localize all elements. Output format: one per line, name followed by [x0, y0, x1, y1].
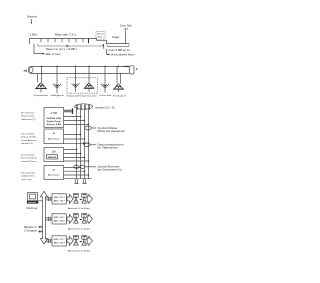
wire right-brace	[107, 45, 129, 47]
node S6 label	[113, 94, 127, 97]
wire row2 arrow end	[87, 214, 92, 223]
wire tick t4	[61, 39, 63, 43]
transistor Q3 sensor	[73, 213, 78, 223]
svg-text:im Taktzyklus: im Taktzyklus	[98, 147, 119, 150]
node annot3 text	[98, 165, 122, 171]
transistor Q5 sensor	[73, 235, 78, 245]
op-amp U2 module	[44, 129, 64, 144]
op-amp U1 module	[44, 108, 64, 128]
wire tick t6	[75, 39, 77, 43]
transistor Q6 sensor	[82, 235, 87, 245]
svg-text:10n: 10n	[52, 150, 57, 153]
node right-callout label	[111, 53, 136, 56]
node sensor-group box	[67, 78, 98, 93]
wire U4 pin2	[64, 171, 86, 172]
wire group link	[38, 226, 43, 233]
svg-text:Abstand 10 m Kabel: Abstand 10 m Kabel	[68, 250, 91, 253]
node bus name	[96, 105, 115, 109]
svg-text:Ein einzelner: Ein einzelner	[21, 112, 35, 115]
sensor S4 transducer	[84, 83, 94, 92]
svg-text:Helligkeit: Helligkeit	[51, 94, 65, 97]
wire busline L4	[88, 105, 90, 179]
node note1 left	[21, 112, 36, 121]
wire PC link	[38, 200, 42, 202]
op-amp U3 module	[44, 148, 64, 162]
node gap-label	[112, 35, 120, 39]
wire M2 arrow out	[67, 214, 73, 223]
svg-text:Digital-Temp.: Digital-Temp.	[47, 120, 62, 123]
svg-text:Zeitpunkt: Zeitpunkt	[27, 14, 37, 18]
svg-text:antwortet,: antwortet,	[21, 175, 35, 178]
svg-text:MF-PC: MF-PC	[54, 197, 66, 199]
svg-text:MF-PC: MF-PC	[54, 239, 66, 241]
node annot2 text	[98, 143, 125, 149]
svg-text:Rechner: Rechner	[27, 207, 38, 210]
node module M3	[52, 236, 66, 246]
wire sensor gap arrows r2	[79, 219, 82, 221]
svg-text:2 Gruppen: 2 Gruppen	[24, 229, 38, 232]
svg-text:Abstand 10 m Kabel: Abstand 10 m Kabel	[68, 207, 91, 210]
svg-text:Hausbus CC1 - 02: Hausbus CC1 - 02	[96, 105, 115, 109]
node bus lasso	[75, 104, 93, 110]
svg-text:Der naechste: Der naechste	[21, 154, 35, 157]
wire busline L2	[80, 105, 82, 179]
wire left-brace tick	[33, 44, 35, 46]
sensor S1 transducer	[35, 83, 47, 93]
node rate-label	[55, 33, 77, 36]
sensor S2 funnel	[53, 84, 61, 93]
node left-callout label	[46, 53, 62, 56]
node module M1	[52, 194, 66, 204]
svg-text:Tentakel: Tentakel	[113, 94, 127, 97]
wire busline L1	[76, 105, 78, 179]
node note2 left	[21, 133, 37, 145]
wire start-arrow	[31, 19, 33, 24]
wire U1 pin2	[64, 116, 82, 117]
transistor Q2 sensor	[82, 193, 87, 203]
node module M2	[52, 214, 66, 224]
wire U2 pin1	[64, 134, 82, 135]
wire bus tube	[28, 66, 130, 73]
svg-text:usw. (n): usw. (n)	[21, 179, 32, 181]
svg-text:Feuchte: Feuchte	[100, 94, 113, 97]
svg-text:Sensor sendet: Sensor sendet	[21, 136, 36, 139]
svg-text:36 sec aktuelle Werte: 36 sec aktuelle Werte	[111, 53, 136, 56]
wire sensor gap arrows r1	[79, 199, 82, 201]
wire waveform W1	[30, 39, 130, 45]
wire bottom rail	[64, 178, 92, 180]
wire row1 arrow end	[87, 194, 92, 203]
svg-text:(Ruhe) wird angewendet: (Ruhe) wird angewendet	[98, 130, 125, 133]
svg-text:a): a)	[124, 28, 128, 31]
wire branch B3	[45, 239, 52, 243]
wire end-marker	[125, 30, 127, 44]
wire left-callout arrow	[34, 46, 45, 55]
wire U3 pin3	[64, 157, 86, 158]
node annot2 marker	[84, 143, 96, 147]
wire tick t8 bold	[88, 39, 90, 44]
svg-text:adressiert (1): adressiert (1)	[21, 118, 36, 121]
svg-text:4 sec 2 MB sp ter: 4 sec 2 MB sp ter	[108, 49, 130, 52]
svg-text:ressiert (2 bis n): ressiert (2 bis n)	[21, 160, 37, 163]
node row2 label	[68, 228, 91, 231]
svg-text:Dauer ca. 0,2 s + 8 MB s: Dauer ca. 0,2 s + 8 MB s	[46, 48, 78, 51]
sensor S2 wire	[56, 66, 58, 84]
svg-text:AD 90: AD 90	[54, 241, 66, 244]
wire U3 pin4	[64, 160, 90, 161]
wire U4 pin3	[64, 174, 90, 175]
wire U1 pin3	[64, 120, 86, 121]
wire U2 pin3	[64, 142, 90, 144]
node group label	[67, 94, 98, 97]
svg-text:Abstand 10 m Kabel: Abstand 10 m Kabel	[68, 228, 91, 231]
wire tick t2	[47, 39, 49, 43]
node S5 label	[100, 94, 113, 97]
wire U1 pin1	[64, 108, 74, 114]
node group note	[24, 227, 38, 232]
svg-text:Sensor wird: Sensor wird	[21, 115, 35, 118]
svg-text:Sensor 9 Bit: Sensor 9 Bit	[47, 123, 62, 126]
wire row3 arrow end	[87, 236, 92, 245]
node left-brace label	[46, 48, 78, 51]
svg-text:AD 90: AD 90	[54, 219, 66, 222]
wire sensor gap arrows r3	[79, 241, 82, 243]
svg-text:Module in: Module in	[24, 227, 37, 229]
svg-text:Der einzelne: Der einzelne	[21, 133, 35, 136]
wire branch B2	[45, 217, 52, 221]
node note4 left	[21, 172, 36, 181]
svg-text:Rate alle 7,5 s: Rate alle 7,5 s	[55, 33, 77, 36]
node annot1 marker	[85, 126, 96, 130]
sensor S6 transducer	[113, 84, 124, 92]
sensor S3 funnel	[72, 83, 80, 92]
svg-text:a): a)	[24, 68, 28, 72]
wire line-end ticks	[75, 179, 87, 183]
sensor S6 wires	[117, 66, 121, 84]
svg-text:Hartgrund/Temperaturzone: Hartgrund/Temperaturzone	[67, 94, 98, 97]
svg-text:seine Antwort: seine Antwort	[21, 139, 37, 142]
node row1 label	[68, 207, 91, 210]
node computer PC	[27, 193, 39, 204]
wire right-callout arrow	[107, 49, 110, 56]
wire U1 pin4	[64, 124, 90, 125]
sensor S5 funnel	[101, 84, 109, 93]
node note3 left	[21, 154, 37, 163]
svg-text:Sensor wird ad-: Sensor wird ad-	[21, 157, 37, 160]
node annot3 markers	[74, 165, 96, 168]
wire tick t3	[54, 39, 56, 43]
svg-text:Symbol Muster: Symbol Muster	[98, 127, 118, 130]
wire tick t5	[68, 39, 70, 43]
sensor S5 wire	[104, 66, 106, 84]
wire U3 pin2	[64, 153, 82, 154]
wire gap-arrow	[103, 44, 105, 49]
svg-text:500 s: 500 s	[97, 37, 103, 39]
wire left-brace	[38, 44, 104, 47]
wire U3 pin1	[64, 149, 78, 150]
svg-text:AD 90: AD 90	[54, 199, 66, 202]
node row3 label	[68, 250, 91, 253]
svg-text:Daten austauschen: Daten austauschen	[98, 143, 125, 146]
svg-text:Der naechste: Der naechste	[21, 172, 36, 175]
svg-text:1790: 1790	[51, 112, 58, 115]
node S2 label	[51, 94, 65, 97]
node tube right cap	[130, 66, 138, 74]
svg-text:BW25: BW25	[48, 157, 58, 159]
op-amp U4 module	[44, 166, 64, 180]
svg-text:Symbol Elemente: Symbol Elemente	[98, 165, 121, 168]
node S1 label	[34, 94, 48, 97]
svg-text:als Gesamtabruf (n): als Gesamtabruf (n)	[98, 169, 122, 172]
wire M1 arrow out	[67, 194, 73, 203]
sensor S3 wire	[75, 66, 77, 84]
node bit-label	[29, 33, 37, 36]
svg-text:Antwort: Antwort	[48, 137, 60, 140]
sensor S4 wire	[88, 66, 90, 83]
svg-text:Antwort: Antwort	[48, 174, 60, 177]
wire tick t1	[40, 39, 42, 43]
svg-text:alle 2 sec: alle 2 sec	[46, 53, 62, 56]
svg-text:Gap: Gap	[112, 35, 120, 39]
node a-label	[24, 68, 28, 72]
node end-label	[120, 24, 132, 31]
node annot1 text	[98, 127, 125, 133]
wire tick t7	[82, 39, 84, 43]
node PC label	[27, 207, 38, 210]
svg-text:DS1820 (1W): DS1820 (1W)	[47, 118, 62, 120]
wire busline L3	[84, 105, 86, 179]
svg-text:1 Bit: 1 Bit	[29, 33, 37, 36]
wire U4 pin1	[64, 167, 82, 168]
transistor Q1 sensor	[73, 193, 78, 203]
node reset-callout box	[96, 32, 105, 40]
svg-text:MF-PC: MF-PC	[54, 217, 66, 219]
wire branch B1	[45, 197, 52, 201]
transistor Q4 sensor	[82, 213, 87, 223]
svg-text:Reset: Reset	[97, 33, 104, 36]
wire U2 pin2	[64, 138, 86, 139]
svg-text:Temperatur: Temperatur	[34, 94, 48, 97]
wire M3 arrow out	[67, 236, 73, 245]
svg-text:zurueck (1): zurueck (1)	[21, 142, 33, 145]
wire trunk arrow	[40, 191, 47, 244]
node right-brace label	[108, 49, 130, 52]
node start-label	[27, 14, 37, 18]
sensor S1 wires	[38, 66, 43, 83]
